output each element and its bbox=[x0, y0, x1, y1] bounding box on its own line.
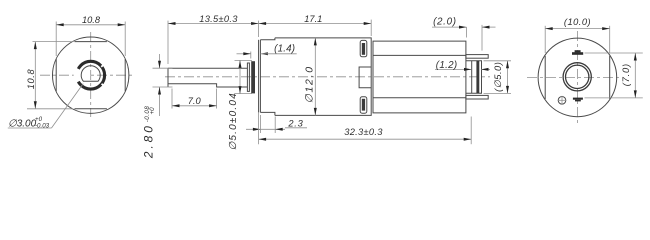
dim 10.8 left: ext lines bbox=[33, 41, 74, 43]
svg-text:∅12.0: ∅12.0 bbox=[304, 65, 316, 103]
motor front boss at joint bbox=[359, 67, 371, 88]
svg-text:10.8: 10.8 bbox=[26, 69, 36, 90]
dim (7.0): line+arrows bbox=[634, 53, 636, 98]
ring gap left bbox=[73, 67, 91, 84]
dark bearing boss bbox=[251, 61, 255, 93]
bearing ring (dark) bbox=[77, 61, 105, 89]
rear flat right bbox=[609, 56, 611, 99]
gearbox body bbox=[275, 38, 371, 116]
svg-text:(∅5.0): (∅5.0) bbox=[493, 62, 503, 92]
svg-text:-0.08: -0.08 bbox=[144, 106, 151, 123]
centerline vertical bbox=[576, 31, 578, 124]
motor can bbox=[373, 41, 466, 113]
svg-text:17.1: 17.1 bbox=[304, 14, 322, 24]
gearbox outer circle bbox=[52, 37, 128, 113]
dim 10.8 top: dim line bbox=[56, 24, 125, 26]
dim 7.0: dim line bbox=[172, 105, 217, 107]
ring notch 2 bbox=[102, 84, 107, 87]
centerline bbox=[165, 76, 490, 78]
can flat line bottom bbox=[373, 97, 466, 99]
svg-text:2.80: 2.80 bbox=[142, 123, 156, 159]
terminal bottom bbox=[466, 95, 488, 99]
dim (dia5.0) cap: line+arrows bbox=[507, 61, 509, 94]
dim (2.0): ext lines bbox=[466, 27, 468, 37]
gearbox collar bbox=[260, 38, 275, 116]
cap outer circle bbox=[563, 63, 591, 91]
flat right bbox=[124, 59, 126, 91]
leader for dia 3.00 bbox=[52, 84, 84, 128]
stake slot top bbox=[360, 40, 367, 56]
dim (2.0): line+arrows bbox=[432, 26, 467, 28]
svg-text:32.3±0.3: 32.3±0.3 bbox=[344, 127, 383, 137]
svg-text:(7.0): (7.0) bbox=[621, 63, 631, 86]
dim (7.0): ext lines bbox=[585, 52, 643, 54]
dim (10.0): ext lines bbox=[544, 26, 546, 53]
terminal top bbox=[466, 55, 488, 59]
svg-text:7.0: 7.0 bbox=[188, 96, 202, 106]
shaft circle with bottom flat bbox=[81, 66, 100, 81]
dim 10.8 top: ext lines bbox=[55, 22, 57, 57]
dim (1.2): line+arrows bbox=[435, 68, 472, 70]
flat left bbox=[55, 59, 57, 91]
bottom tab bbox=[573, 98, 583, 100]
cap inner circle bbox=[566, 65, 589, 88]
stake slot bottom bbox=[360, 97, 367, 113]
svg-text:(1.2): (1.2) bbox=[436, 60, 458, 71]
dim 32.3: dim line bbox=[259, 138, 472, 140]
rear flat left bbox=[544, 56, 546, 99]
dim 2.3: ext lines bbox=[259, 115, 261, 133]
dim (1.4): line+arrows bbox=[237, 53, 251, 55]
dim (10.0): dim line bbox=[545, 28, 610, 30]
svg-text:13.5±0.3: 13.5±0.3 bbox=[199, 14, 238, 24]
dim 2.80: ext+arrows bbox=[153, 67, 173, 69]
dim dia12.0: line+arrows bbox=[314, 38, 316, 116]
dim 7.0: ext lines bbox=[171, 89, 173, 109]
flat bottom bbox=[75, 108, 107, 110]
dia 3.00 underline bbox=[8, 127, 52, 129]
svg-text:∅5.0±0.04: ∅5.0±0.04 bbox=[228, 92, 239, 150]
cap dark rim bbox=[476, 61, 479, 93]
shaft outline bbox=[168, 68, 247, 87]
end cap bbox=[466, 61, 482, 93]
svg-text:∅3.00: ∅3.00 bbox=[8, 118, 37, 129]
dim 13.5: dim line bbox=[168, 23, 259, 25]
dim 10.8 left: dim line bbox=[34, 42, 36, 109]
centerline horizontal bbox=[40, 74, 133, 76]
centerline vertical bbox=[90, 32, 92, 117]
can flat line top bbox=[373, 54, 466, 56]
centerline horizontal bbox=[527, 76, 622, 78]
dim dia5.0 shaft boss: line+arrows bbox=[235, 59, 253, 61]
ring notch 1 bbox=[101, 63, 105, 67]
plus-hole symbol bbox=[558, 97, 566, 105]
svg-text:10.8: 10.8 bbox=[82, 15, 101, 25]
dim (dia5.0) cap: ext lines bbox=[484, 60, 512, 62]
rear circle bbox=[538, 38, 617, 117]
dim 13.5: ext lines bbox=[167, 21, 169, 64]
top tab bbox=[572, 52, 583, 55]
dim 17.1: dim line bbox=[259, 23, 372, 25]
svg-text:-0.03: -0.03 bbox=[35, 122, 50, 129]
svg-text:(10.0): (10.0) bbox=[564, 17, 591, 27]
dim 32.3: ext line right bbox=[470, 117, 472, 145]
gearbox front face double line bbox=[258, 40, 260, 113]
dim 2.3: line+arrows bbox=[246, 128, 285, 130]
svg-text:2.3: 2.3 bbox=[287, 119, 303, 129]
flat top bbox=[75, 41, 107, 43]
svg-text:(1.4): (1.4) bbox=[274, 44, 295, 55]
svg-text:(2.0): (2.0) bbox=[433, 17, 457, 28]
washer at shaft base bbox=[247, 63, 249, 91]
cap inner line bbox=[471, 61, 473, 93]
